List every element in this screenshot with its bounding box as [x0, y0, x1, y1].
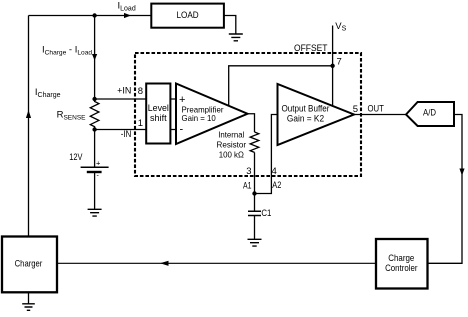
- op-amp preamplifier U1: [176, 84, 248, 145]
- svg-text:-: -: [180, 124, 184, 136]
- wire level shift to preamp inputs: [170, 99, 176, 130]
- arrow down to controller: [459, 169, 464, 176]
- arrow ILoad current direction: [124, 13, 131, 18]
- wire pin 4 feedback: [256, 115, 278, 194]
- svg-text:Internal: Internal: [218, 130, 244, 140]
- wire C1 to ground: [254, 216, 256, 240]
- capacitor C1: [248, 211, 261, 215]
- svg-text:3: 3: [246, 166, 251, 177]
- wire top horizontal from left rail to LOAD: [29, 15, 152, 17]
- wire LOAD to ground: [224, 16, 236, 35]
- svg-text:Controler: Controler: [385, 263, 417, 274]
- arrow into charger: [160, 261, 169, 266]
- svg-text:100 kΩ: 100 kΩ: [219, 150, 245, 160]
- adc A/D converter: [406, 102, 454, 126]
- charger box: [2, 237, 57, 293]
- svg-text:LOAD: LOAD: [177, 10, 199, 21]
- svg-text:A1: A1: [243, 181, 252, 192]
- svg-text:C1: C1: [261, 208, 271, 219]
- svg-text:Charger: Charger: [15, 259, 43, 270]
- charge controller box: [376, 239, 428, 289]
- svg-text:7: 7: [337, 57, 342, 68]
- svg-text:OUT: OUT: [368, 103, 385, 113]
- dashed boundary amplifier box: [135, 53, 361, 176]
- svg-text:5: 5: [353, 104, 358, 115]
- node pin7 junction: [330, 64, 334, 68]
- wire branch down to RSENSE: [94, 16, 96, 100]
- svg-text:12V: 12V: [69, 152, 83, 163]
- svg-text:+: +: [96, 158, 101, 167]
- svg-text:+IN: +IN: [117, 86, 131, 97]
- svg-text:A/D: A/D: [423, 107, 436, 118]
- wire pin 3: [254, 152, 256, 193]
- battery 12V: [81, 158, 109, 179]
- svg-text:1: 1: [138, 118, 143, 129]
- wire -IN: [95, 129, 147, 131]
- ground at charger: [22, 304, 35, 311]
- wire charger to ground: [28, 292, 30, 304]
- wire VS supply: [332, 26, 334, 107]
- resistor internal 100k: [250, 132, 259, 152]
- wire A/D to charge controller: [428, 115, 463, 264]
- wire battery branch: [94, 130, 96, 168]
- svg-text:A2: A2: [272, 180, 281, 191]
- ground at battery: [88, 209, 102, 216]
- node A1 junction: [252, 191, 256, 195]
- svg-text:4: 4: [272, 166, 277, 177]
- label internal resistor: [217, 130, 247, 160]
- svg-text:Output Buffer: Output Buffer: [282, 104, 330, 114]
- load box LOAD: [151, 4, 224, 28]
- ground at C1: [248, 239, 262, 246]
- ground at LOAD: [229, 34, 243, 41]
- wire +IN: [95, 98, 147, 100]
- wire offset to preamp top: [229, 66, 333, 106]
- wire OUT: [354, 114, 406, 116]
- node junction at load branch: [92, 13, 96, 17]
- node +IN junction: [92, 97, 96, 101]
- resistor RSENSE: [90, 99, 99, 130]
- svg-text:Gain = 10: Gain = 10: [182, 113, 216, 123]
- wire controller to charger: [57, 262, 376, 264]
- svg-text:8: 8: [138, 86, 143, 97]
- level shift box: [146, 84, 170, 144]
- wire left rail vertical: [28, 16, 30, 237]
- svg-text:Resistor: Resistor: [217, 140, 247, 150]
- node -IN junction: [92, 127, 96, 131]
- wire battery to ground: [94, 173, 96, 209]
- wire preamp output to internal resistor: [248, 114, 255, 132]
- arrow ICharge-ILoad down: [92, 54, 97, 61]
- op-amp output buffer U2: [278, 84, 355, 145]
- arrow ICharge up: [26, 110, 31, 118]
- svg-text:OFFSET: OFFSET: [294, 43, 328, 53]
- wire junction to C1: [254, 194, 256, 212]
- svg-text:shift: shift: [150, 113, 167, 123]
- svg-text:Level: Level: [148, 103, 169, 113]
- svg-text:-IN: -IN: [121, 129, 132, 140]
- svg-text:Gain = K2: Gain = K2: [287, 114, 324, 124]
